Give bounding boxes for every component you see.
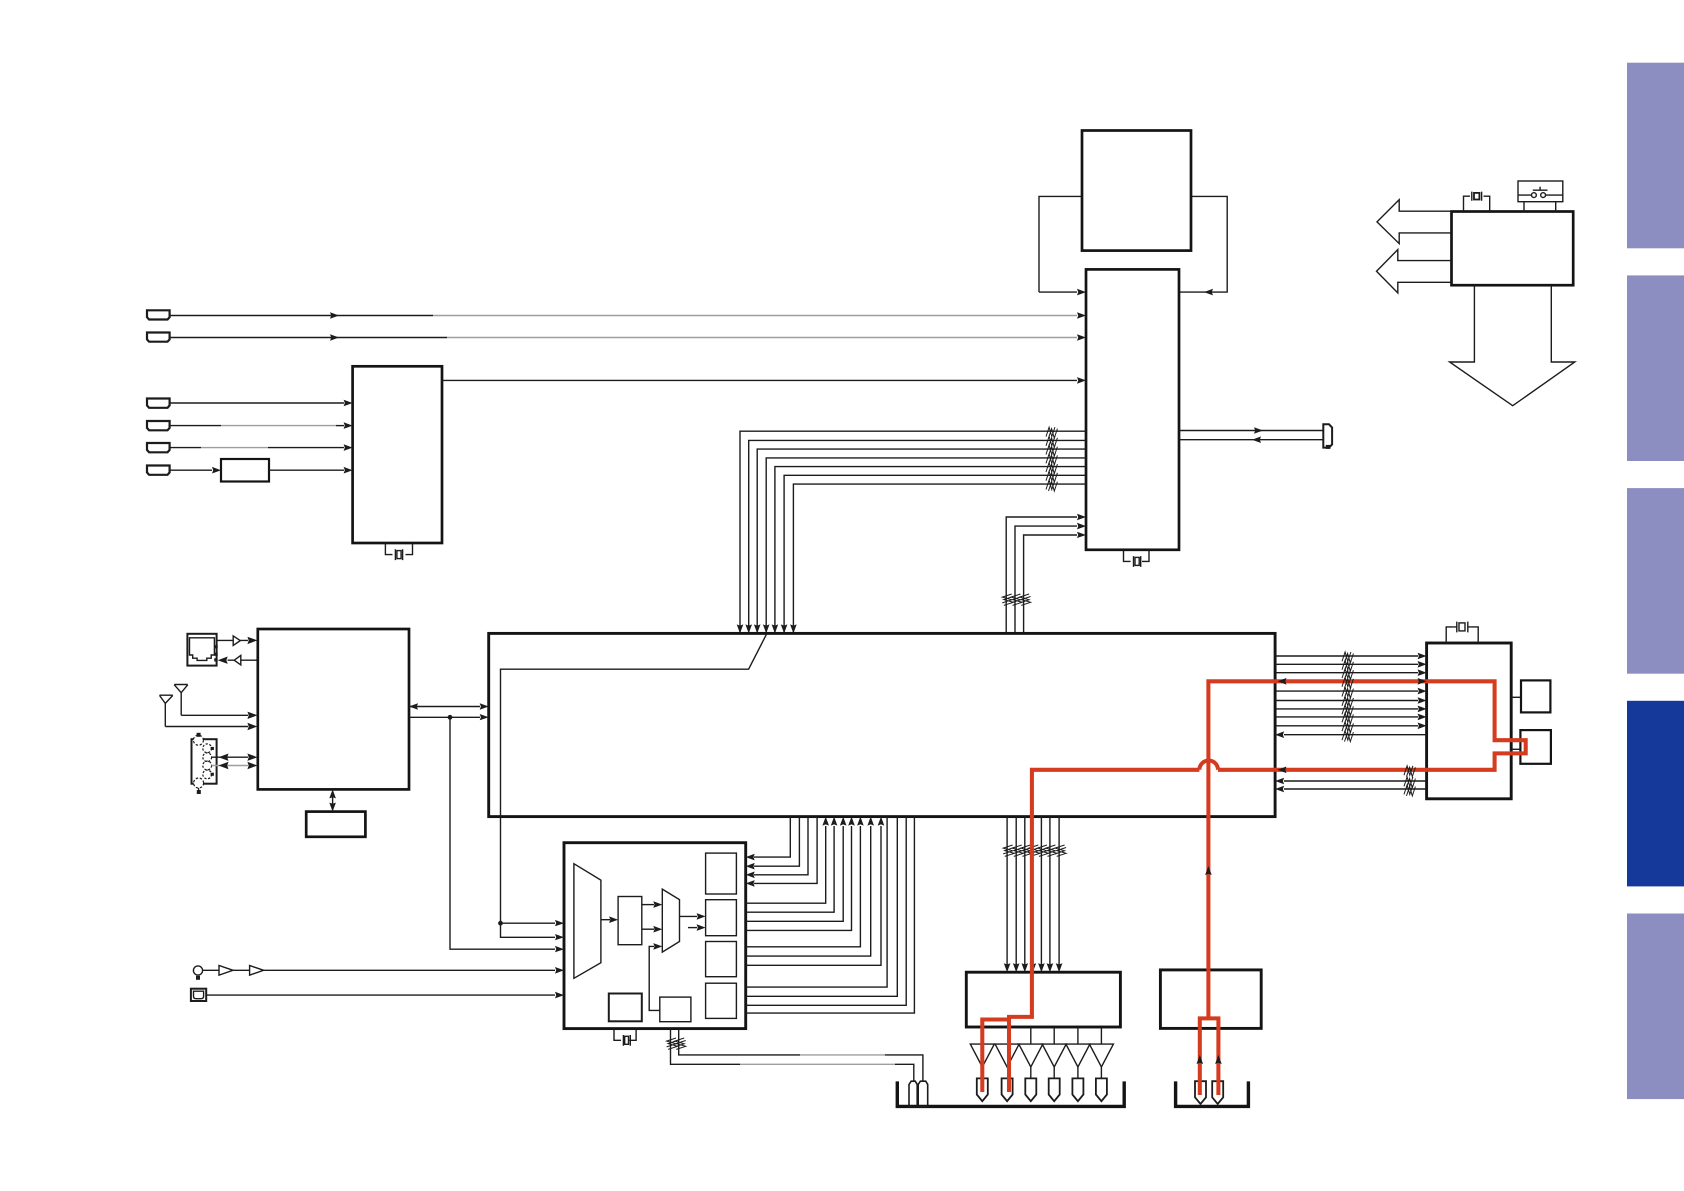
wire P4 to IC1 bbox=[170, 425, 221, 427]
pin mark CN2 bbox=[1326, 445, 1331, 449]
amp wire 6 bbox=[1100, 1067, 1102, 1078]
arrow into IC2 bbox=[1077, 377, 1086, 384]
lcd status line 2 bbox=[1275, 785, 1427, 796]
clock box bbox=[660, 997, 691, 1022]
inner partition line bbox=[501, 633, 767, 816]
block speaker driver L bbox=[966, 972, 1120, 1027]
bidirectional wire BT to memory bbox=[332, 796, 334, 805]
connector tab P3 bbox=[147, 399, 170, 408]
bus line E1 DSP to main IC bbox=[746, 817, 887, 988]
i2s line 2 bbox=[746, 817, 838, 913]
dac out line 1 from main IC to sub rect A bbox=[746, 817, 791, 861]
mic buffer amp 1 bbox=[219, 966, 233, 976]
crystal X3 on PSU bbox=[1464, 192, 1490, 212]
block IC2 (system controller) bbox=[1086, 269, 1179, 549]
wire P2 to IC2 bbox=[170, 337, 447, 339]
wire adc to mux2 b bbox=[642, 928, 654, 930]
pwm bundle line 1 to headphone amp block bbox=[1003, 817, 1014, 973]
wire P3 to IC1 bbox=[170, 402, 344, 404]
lcd status line 1 bbox=[1275, 777, 1427, 788]
sidebar tab 1 bbox=[1627, 63, 1684, 249]
speaker pin 2 bbox=[1002, 1078, 1013, 1101]
aux pin 2 bbox=[918, 1081, 928, 1106]
amp wire 3 bbox=[1030, 1067, 1032, 1078]
line out wire upper from clock box bbox=[679, 1029, 800, 1055]
wire IC2 to side connector lower bbox=[1179, 439, 1323, 441]
amp stub 3 bbox=[1030, 1027, 1032, 1044]
wire loop around RAM block bbox=[1039, 196, 1227, 292]
amp wire 4 bbox=[1053, 1067, 1055, 1078]
arrow on loop right segment bbox=[1204, 289, 1213, 296]
hollow arrow out left lower bbox=[1377, 250, 1452, 293]
pwm bundle line 4 bbox=[1029, 817, 1040, 973]
connector tab P4 bbox=[147, 421, 170, 430]
hollow arrow down bbox=[1450, 285, 1575, 406]
power block PSU bbox=[1452, 212, 1574, 286]
aux pin 1 bbox=[909, 1081, 917, 1106]
connector tab P1 bbox=[147, 310, 170, 319]
crystal X4 below DSP bbox=[614, 1029, 636, 1046]
crystal X2 below IC2 bbox=[1124, 550, 1150, 567]
mux trapezoid 1 bbox=[574, 864, 601, 979]
dac out line 4 bbox=[746, 817, 817, 887]
control line C1 bbox=[1011, 523, 1086, 634]
wire CN1 pin3 to BT block (gray) bbox=[212, 765, 248, 767]
black arrow up on red sp pin R2 bbox=[1215, 1055, 1222, 1064]
connector housing bottom center bbox=[897, 1081, 1124, 1106]
arrow loop into IC2 bbox=[1077, 289, 1086, 296]
arrow left on lower pair bbox=[1252, 436, 1261, 443]
wire adc to mux2 a bbox=[642, 904, 654, 906]
pwm bundle line 2 bbox=[1012, 817, 1023, 973]
pwm bundle line 6 bbox=[1046, 817, 1057, 973]
power switch SW1 bbox=[1518, 181, 1563, 212]
black arrow into main IC on red upper bbox=[1278, 678, 1287, 685]
amp wire 5 bbox=[1077, 1067, 1079, 1078]
wire mux2 to sub rect B bbox=[680, 915, 698, 917]
sp pin R2 bbox=[1212, 1081, 1223, 1104]
arrow into CN1 bbox=[219, 754, 229, 761]
arrow into BT block bbox=[247, 754, 257, 761]
speaker pin 4 bbox=[1049, 1078, 1060, 1101]
black arrow up on red line bbox=[1205, 866, 1212, 875]
arrow into IC1 bbox=[344, 467, 353, 474]
arrow P1 into IC2 bbox=[1077, 312, 1086, 319]
lcd bus line 5 bbox=[1275, 697, 1427, 708]
red hop over bbox=[1199, 761, 1218, 770]
block DSP/amp bbox=[564, 843, 746, 1029]
connector tab P6 bbox=[147, 466, 170, 475]
pwm bundle line 7 bbox=[1055, 817, 1066, 973]
sidebar tab 2 bbox=[1627, 275, 1684, 461]
speaker pin 5 bbox=[1072, 1078, 1083, 1101]
lcd bus line 6 bbox=[1275, 705, 1427, 716]
dac out line 2 bbox=[746, 817, 800, 870]
arrow P6 into buffer box bbox=[212, 467, 221, 474]
main IC (audio processor) bbox=[489, 633, 1275, 816]
pwm bundle line 3 bbox=[1021, 817, 1032, 973]
sub rect C bbox=[706, 942, 737, 977]
branch to DSP bbox=[501, 922, 556, 924]
control line C2 bbox=[1020, 532, 1086, 634]
arrow into BT block bbox=[247, 637, 257, 644]
junction dot on partition wire bbox=[498, 921, 503, 926]
connector tab P2 bbox=[147, 333, 170, 342]
wire stub to sub rect B lower bbox=[688, 927, 697, 929]
wire BT to main IC upper bbox=[409, 706, 480, 708]
amp stub 4 bbox=[1053, 1027, 1055, 1044]
lcd bus line 2 bbox=[1275, 660, 1427, 671]
bus line D2 bbox=[754, 445, 1086, 633]
red path into speaker driver R bbox=[1200, 970, 1219, 1095]
block speaker driver R bbox=[1160, 970, 1261, 1029]
wire optical to DSP bbox=[206, 994, 555, 996]
wire CN1 pin2 to BT block bbox=[212, 756, 248, 758]
arrow mid P1 bbox=[330, 312, 339, 319]
red signal path upper bbox=[1208, 681, 1525, 970]
line out wire lower bbox=[671, 1029, 741, 1065]
sub rect B bbox=[706, 900, 737, 936]
lcd bus line 3 bbox=[1275, 669, 1427, 680]
block RAM bbox=[1082, 131, 1191, 251]
wire J1 to BT block bbox=[217, 639, 248, 641]
i2s line 1 DSP to main IC bbox=[746, 817, 829, 904]
wire lcd to key box 2 bbox=[1511, 748, 1520, 750]
buffer amp down bbox=[234, 655, 241, 665]
block IC1 (interface) bbox=[353, 366, 442, 543]
memory box below BT bbox=[306, 812, 365, 837]
i2s line 4 bbox=[746, 817, 855, 931]
adc box bbox=[618, 897, 642, 945]
i2s line 6 bbox=[746, 817, 874, 957]
squiggle on red upper bbox=[1342, 677, 1351, 686]
bus line D3 bbox=[763, 454, 1086, 634]
amp triangle 3 bbox=[1019, 1044, 1043, 1067]
speaker pin 3 bbox=[1025, 1078, 1036, 1101]
mux trapezoid 2 bbox=[662, 889, 679, 952]
i2s line 7 bbox=[746, 817, 885, 966]
wire IC1 output to IC2 bbox=[442, 379, 1077, 381]
sidebar tab 3 bbox=[1627, 488, 1684, 674]
wire clockbox to mux2 bbox=[649, 946, 660, 1010]
crystal X5 above lcd block bbox=[1446, 622, 1478, 643]
wire mic to DSP bbox=[203, 969, 555, 971]
arrow ANT2 into block bbox=[247, 723, 257, 730]
DIN connector CN1 bbox=[192, 733, 217, 794]
bus line E2 bbox=[746, 817, 898, 997]
junction dot bbox=[448, 715, 453, 720]
wire BT block to J1 bbox=[228, 659, 258, 661]
wire ANT2 to BT block bbox=[165, 726, 248, 728]
key box 1 bbox=[1521, 680, 1550, 712]
wire P6 to buffer box bbox=[170, 469, 212, 471]
i2s line 3 bbox=[746, 817, 847, 922]
wire lcd to key box 1 bbox=[1511, 696, 1521, 698]
speaker pin 6 bbox=[1096, 1078, 1107, 1101]
optical jack OPT1 bbox=[191, 989, 206, 1001]
lcd bus line 4 bbox=[1275, 687, 1427, 698]
black arrow into main IC on red lower bbox=[1278, 767, 1287, 774]
wire junction down to DSP bbox=[450, 717, 555, 949]
arrow right on upper pair bbox=[1254, 427, 1263, 434]
arrow P5 into IC1 bbox=[344, 444, 353, 451]
bus line D4 bbox=[772, 463, 1086, 634]
mic buffer amp 2 bbox=[250, 966, 264, 976]
wire partition down to DSP bbox=[501, 817, 556, 938]
lcd bus line 1 bbox=[1275, 652, 1427, 663]
amp stub 6 bbox=[1100, 1027, 1102, 1044]
sp pin R1 bbox=[1195, 1081, 1206, 1104]
amp triangle 4 bbox=[1042, 1044, 1066, 1067]
i2s line 5 bbox=[746, 817, 864, 947]
amp triangle 6 bbox=[1089, 1044, 1113, 1067]
crystal X1 below IC1 bbox=[385, 543, 412, 560]
AV jack J1 bbox=[187, 634, 217, 666]
arrow into J1 bbox=[218, 657, 228, 664]
side connector CN2 bbox=[1323, 424, 1332, 447]
pwm bundle line 5 bbox=[1038, 817, 1049, 973]
arrow P3 into IC1 bbox=[344, 400, 353, 407]
sidebar tab 4 (active) bbox=[1627, 701, 1684, 887]
bus line E3 bbox=[746, 817, 907, 1006]
lcd return line bbox=[1275, 731, 1427, 742]
lcd block bbox=[1427, 643, 1512, 799]
sub rect A bbox=[706, 853, 737, 894]
dac out line 3 bbox=[746, 817, 808, 879]
black arrow up on red sp pin R1 bbox=[1197, 1055, 1204, 1064]
arrow into BT block bbox=[247, 762, 257, 769]
block BT/tuner module bbox=[258, 629, 409, 789]
amp triangle 5 bbox=[1066, 1044, 1090, 1067]
bus line D1 bbox=[745, 436, 1086, 633]
red signal path lower bbox=[982, 770, 1199, 1092]
bus line D6 bbox=[790, 480, 1086, 633]
arrow mid P2 bbox=[330, 334, 339, 341]
wire ANT1 to BT block bbox=[181, 714, 248, 716]
key box 2 bbox=[1520, 730, 1551, 764]
speaker pin 1 bbox=[977, 1078, 988, 1101]
squiggle on red lower bbox=[1404, 766, 1413, 775]
red branch to pin 2 bbox=[1007, 1017, 1011, 1092]
amp stub 5 bbox=[1077, 1027, 1079, 1044]
arrow ANT1 into block bbox=[247, 712, 257, 719]
bus line D0 bbox=[737, 427, 1086, 633]
antenna ANT1 bbox=[174, 685, 188, 716]
wire buffer box to IC1 bbox=[269, 469, 344, 471]
wire mux1 to adc bbox=[601, 919, 610, 921]
sidebar tab 5 bbox=[1627, 914, 1684, 1100]
black arrow into lcd block on red upper bbox=[1418, 678, 1427, 685]
bus line D5 bbox=[781, 471, 1086, 633]
bus line E4 bbox=[746, 817, 915, 1014]
arrow P4 into IC1 bbox=[344, 422, 353, 429]
buffer amp up bbox=[233, 636, 240, 646]
arrow P2 into IC2 bbox=[1077, 334, 1086, 341]
buffer box U3 bbox=[221, 459, 269, 482]
control line C0 bbox=[1002, 514, 1086, 634]
lcd bus line 8 bbox=[1275, 722, 1427, 733]
sub rect D bbox=[706, 983, 737, 1018]
mic MIC1 bbox=[193, 966, 202, 980]
arrow into CN1 bbox=[219, 762, 229, 769]
pll box bbox=[609, 994, 642, 1022]
antenna ANT2 bbox=[160, 695, 173, 726]
hollow arrow out left upper bbox=[1377, 200, 1452, 244]
wire loop to IC2 left bbox=[1039, 291, 1077, 293]
amp triangle 1 bbox=[970, 1044, 994, 1067]
wire BT to main IC lower bbox=[409, 716, 480, 718]
amp triangle 2 bbox=[995, 1044, 1019, 1067]
connector housing bottom right bbox=[1176, 1081, 1249, 1106]
connector tab P5 bbox=[147, 443, 170, 452]
wire P5 to IC1 bbox=[170, 447, 201, 449]
lcd bus line 7 bbox=[1275, 713, 1427, 724]
wire IC2 to side connector upper bbox=[1179, 430, 1323, 432]
wire P1 to IC2 bbox=[170, 315, 433, 317]
